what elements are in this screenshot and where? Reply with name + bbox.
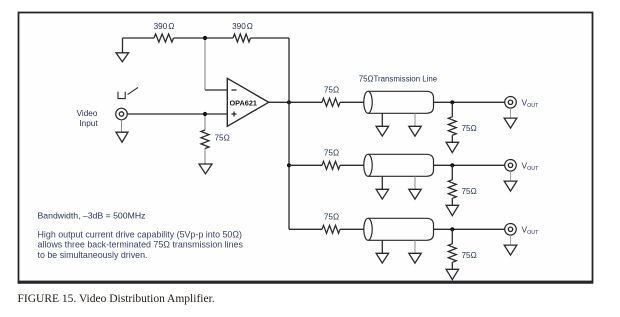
ground G1 (feedback divider)	[116, 38, 129, 62]
wire between R1 and R2	[174, 37, 234, 39]
svg-text:75ΩTransmission Line: 75ΩTransmission Line	[359, 75, 438, 84]
connector J1 video input jack	[116, 87, 138, 119]
svg-text:High output current drive capa: High output current drive capability (5V…	[38, 229, 242, 239]
ground load resistor branch2	[446, 205, 459, 215]
svg-text:75Ω: 75Ω	[324, 213, 339, 222]
wire op amp output	[269, 101, 289, 103]
svg-text:to be simultaneously driven.: to be simultaneously driven.	[38, 250, 148, 260]
op-amp U1 OPA621	[227, 78, 268, 126]
wire to transmission line branch2	[340, 164, 364, 166]
wire transmission line to output branch2	[434, 164, 505, 166]
node branch2 junction dot	[287, 163, 291, 167]
ground G2b transmission line shield right	[409, 176, 421, 199]
resistor R3 75ohm input termination	[201, 116, 230, 164]
ground G2a transmission line shield left	[376, 176, 389, 199]
transmission line T2 coax body	[364, 154, 434, 176]
resistor load 75ohm branch3	[448, 229, 476, 269]
ground below Vout branch3	[504, 235, 517, 255]
ground below Vout branch1	[504, 108, 517, 128]
svg-text:390Ω: 390Ω	[154, 22, 175, 31]
wire R2 to output bus corner	[251, 37, 290, 39]
transmission line T1 coax body	[364, 91, 434, 113]
resistor R4 75ohm series branch1	[322, 86, 340, 107]
ground G1a transmission line shield left	[376, 113, 389, 136]
node load junction dot branch3	[450, 227, 454, 231]
resistor load 75ohm branch2	[448, 165, 476, 205]
node output junction dot	[287, 100, 291, 104]
svg-text:75Ω: 75Ω	[324, 149, 339, 158]
node load junction dot branch1	[450, 100, 454, 104]
ground below Vout branch2	[504, 171, 517, 191]
resistor load 75ohm branch1	[448, 102, 476, 142]
svg-text:allows three back-terminated 7: allows three back-terminated 75Ω transmi…	[38, 240, 244, 250]
wire output bus vertical	[288, 38, 290, 229]
wire branch3 to series resistor	[289, 228, 322, 230]
svg-text:75Ω: 75Ω	[462, 124, 477, 133]
ground G3b transmission line shield right	[409, 240, 421, 263]
ground load resistor branch1	[446, 142, 459, 152]
ground G1b transmission line shield right	[409, 113, 421, 136]
svg-text:Input: Input	[79, 119, 98, 128]
svg-text:75Ω: 75Ω	[462, 187, 477, 196]
svg-text:390Ω: 390Ω	[232, 22, 253, 31]
svg-text:Video: Video	[77, 109, 98, 118]
border bottom emphasis line	[18, 282, 594, 284]
ground G2 below input jack	[116, 120, 128, 142]
wire transmission line to output branch1	[434, 101, 505, 103]
wire branch1 to series resistor	[289, 101, 322, 103]
ground G3 below R3	[199, 164, 212, 174]
wire feedback top-left segment	[123, 37, 155, 39]
svg-text:Bandwidth, –3dB = 500MHz: Bandwidth, –3dB = 500MHz	[38, 210, 146, 220]
figure caption	[18, 293, 215, 305]
wire to transmission line branch3	[340, 228, 364, 230]
connector Vout branch1	[505, 97, 517, 109]
resistor R5 75ohm series branch2	[322, 149, 340, 170]
resistor R6 75ohm series branch3	[322, 213, 340, 234]
node input junction dot	[203, 112, 207, 116]
svg-text:75Ω: 75Ω	[215, 134, 230, 143]
svg-text:OPA621: OPA621	[230, 98, 257, 107]
svg-text:75Ω: 75Ω	[324, 86, 339, 95]
schematic border frame	[19, 13, 593, 282]
wire transmission line to output branch3	[434, 228, 505, 230]
transmission line T3 coax body	[364, 218, 434, 240]
wire to transmission line branch1	[340, 101, 364, 103]
connector Vout branch2	[505, 160, 517, 172]
resistor R1 390ohm	[154, 22, 175, 42]
node inverting junction dot	[203, 36, 207, 40]
node load junction dot branch2	[450, 163, 454, 167]
svg-text:75Ω: 75Ω	[462, 251, 477, 260]
connector Vout branch3	[505, 224, 517, 236]
resistor R2 390ohm feedback	[232, 22, 253, 42]
wire branch2 to series resistor	[289, 164, 322, 166]
wire noninverting input	[127, 113, 227, 115]
note paragraph	[38, 229, 244, 259]
ground load resistor branch3	[446, 269, 459, 279]
ground G3a transmission line shield left	[376, 240, 389, 263]
wire inverting input drop	[205, 40, 227, 90]
